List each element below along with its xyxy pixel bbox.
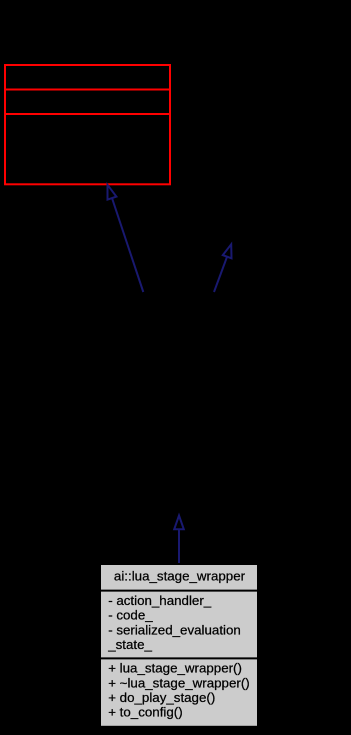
svg-text:ai::lua_stage_wrapper: ai::lua_stage_wrapper — [114, 568, 246, 583]
svg-text:+ lua_stage_wrapper(): + lua_stage_wrapper() — [108, 661, 242, 676]
svg-text:+ to_config(): + to_config() — [108, 705, 182, 720]
svg-text:_state_: _state_ — [107, 637, 152, 652]
svg-text:- serialized_evaluation: - serialized_evaluation — [108, 622, 241, 637]
svg-text:- action_handler_: - action_handler_ — [108, 593, 212, 608]
svg-text:+ do_play_stage(): + do_play_stage() — [108, 690, 215, 705]
svg-text:- code_: - code_ — [108, 608, 153, 623]
svg-text:+ ~lua_stage_wrapper(): + ~lua_stage_wrapper() — [108, 675, 250, 690]
